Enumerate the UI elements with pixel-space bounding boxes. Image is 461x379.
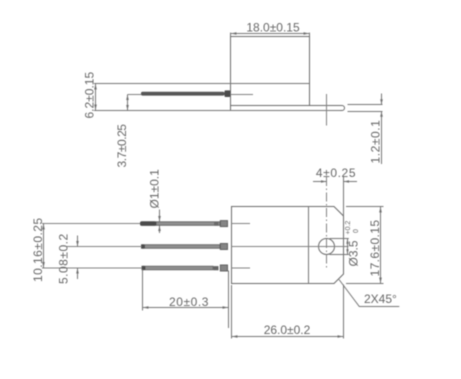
- dim 17.6±0.15 arrows: [379, 207, 382, 284]
- dim 5.08±0.2 arrows: [76, 241, 79, 274]
- top view hole centerline across tab: [326, 94, 328, 126]
- dim Ø1±0.1 line: [159, 210, 161, 234]
- front view pin 1: [140, 221, 228, 227]
- dim 18.0±0.15 arrows: [231, 32, 310, 35]
- dim 20±0.3 arrows: [143, 306, 229, 309]
- top view pin lead: [141, 90, 230, 97]
- front view pin 3: [142, 265, 228, 271]
- top view bottom seating line B: [94, 110, 342, 112]
- svg-text:Ø3.5: Ø3.5: [347, 240, 361, 266]
- svg-text:Ø1±0.1: Ø1±0.1: [148, 169, 162, 209]
- svg-text:3.7±0.25: 3.7±0.25: [115, 124, 129, 168]
- dim 6.2±0.15 line: [95, 84, 97, 111]
- pin 2 centerline extension: [66, 246, 142, 248]
- svg-text:4±0.25: 4±0.25: [316, 166, 356, 180]
- dim 3.7±0.25 line: [127, 95, 129, 111]
- dim 6.2±0.15 arrows: [94, 84, 97, 111]
- svg-text:0: 0: [353, 229, 360, 233]
- label Ø3.5 +0.2/0: [345, 221, 361, 267]
- pin 1 hidden stub inside body: [232, 223, 251, 225]
- pin 1 centerline extension: [42, 223, 140, 225]
- svg-text:+0.2: +0.2: [345, 221, 352, 235]
- top view body outline: [231, 37, 310, 111]
- top view pin centerline left extension: [128, 94, 142, 96]
- dim 1.2±0.1 extension lines: [348, 105, 383, 112]
- top view tab: [231, 106, 345, 111]
- dim 4±0.25 arrows: [321, 180, 349, 183]
- dim 1.2±0.1 arrows: [380, 99, 383, 117]
- dim 17.6±0.15 extension lines: [346, 207, 384, 284]
- svg-text:6.2±0.15: 6.2±0.15: [83, 72, 97, 119]
- dim 26.0±0.2 extension lines: [232, 285, 344, 339]
- svg-text:10.16±0.25: 10.16±0.25: [31, 218, 45, 282]
- dim Ø1±0.1 arrows: [158, 216, 161, 231]
- dim 17.6±0.15 line: [380, 207, 382, 284]
- dim 1.2±0.1 line: [381, 94, 383, 165]
- dim 5.08±0.2 line: [77, 236, 79, 280]
- dim 26.0±0.2 line: [232, 336, 344, 338]
- chamfer leader 2X45: [339, 280, 399, 307]
- hole vertical centerline: [326, 177, 328, 268]
- middle pin / hole horizontal centerline: [232, 246, 349, 248]
- pin 3 hidden stub inside body: [232, 267, 251, 269]
- dim Ø3.5 extension lines: [330, 239, 349, 255]
- top view step line A: [94, 83, 310, 85]
- dim 20±0.3 line: [143, 307, 229, 309]
- svg-text:1.2±0.1: 1.2±0.1: [369, 120, 383, 164]
- dim 3.7±0.25 arrows: [126, 95, 129, 111]
- dim 10.16±0.25 line: [43, 224, 45, 269]
- svg-text:26.0±0.2: 26.0±0.2: [264, 323, 311, 337]
- dim 4±0.25 extension line: [343, 177, 345, 216]
- front view body outline with chamfers: [232, 207, 344, 284]
- svg-text:20±0.3: 20±0.3: [169, 295, 209, 309]
- dim 18.0±0.15 line: [231, 33, 310, 35]
- top view pin centerline into body: [231, 94, 254, 96]
- dim 20±0.3 extension lines: [143, 270, 229, 329]
- svg-text:17.6±0.15: 17.6±0.15: [368, 220, 382, 277]
- mounting hole: [319, 239, 335, 255]
- dim 4±0.25 line: [313, 181, 357, 183]
- svg-text:2X45°: 2X45°: [364, 292, 397, 306]
- dim Ø3.5 arrows: [346, 239, 348, 255]
- dim 10.16±0.25 arrows: [42, 224, 45, 269]
- dim Ø3.5 line: [347, 239, 349, 255]
- svg-text:18.0±0.15: 18.0±0.15: [246, 21, 300, 35]
- front view pin 2: [141, 244, 228, 250]
- dim 26.0±0.2 arrows: [232, 335, 344, 338]
- svg-text:5.08±0.2: 5.08±0.2: [57, 233, 71, 284]
- pin 3 centerline extension: [42, 267, 142, 269]
- front view divider line: [308, 207, 310, 284]
- dim 18.0±0.15 extension lines: [231, 33, 310, 36]
